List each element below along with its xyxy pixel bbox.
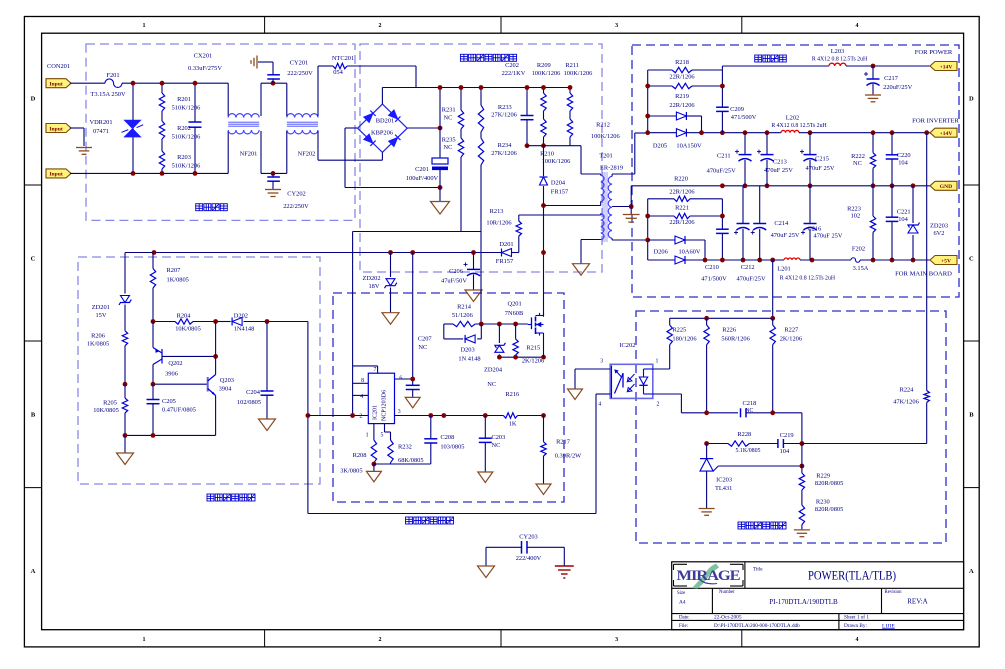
svg-text:CON201: CON201 [47,63,70,70]
svg-text:R201: R201 [177,96,191,103]
svg-text:470uF 25V: 470uF 25V [771,232,800,239]
svg-text:C211: C211 [717,152,731,159]
svg-text:ZD202: ZD202 [362,275,380,282]
svg-text:3: 3 [600,359,603,365]
svg-text:0.39R/2W: 0.39R/2W [555,452,582,459]
svg-text:18V: 18V [368,283,379,290]
svg-text:0.47UF/0805: 0.47UF/0805 [162,407,196,414]
svg-text:VDR201: VDR201 [89,119,112,126]
svg-text:6: 6 [399,376,402,382]
svg-text:R227: R227 [784,327,799,334]
svg-text:C206: C206 [449,268,463,275]
svg-text:L201: L201 [777,266,791,273]
svg-text:C: C [969,256,974,263]
svg-text:1: 1 [143,637,146,643]
svg-text:3.15A: 3.15A [853,265,869,272]
svg-text:L202: L202 [786,115,800,122]
svg-text:R222: R222 [851,153,865,160]
svg-text:27K/1206: 27K/1206 [491,150,517,157]
svg-text:2: 2 [359,413,362,419]
svg-text:1K: 1K [509,420,517,427]
svg-text:R230: R230 [816,499,830,506]
svg-text:100K/1206: 100K/1206 [564,70,593,77]
svg-text:2K/1206: 2K/1206 [522,358,544,365]
svg-text:5.1K/0805: 5.1K/0805 [735,448,760,454]
svg-text:NTC201: NTC201 [332,55,354,62]
svg-text:D203: D203 [460,347,474,354]
svg-text:FOR MAIN BOARD: FOR MAIN BOARD [895,271,952,278]
svg-text:ER-2819: ER-2819 [600,165,623,172]
svg-text:10K/0805: 10K/0805 [93,407,119,414]
svg-text:B: B [31,412,36,419]
svg-text:F201: F201 [106,72,119,79]
svg-text:C215: C215 [815,156,829,163]
svg-text:C203: C203 [491,434,505,441]
svg-text:100uF/400V: 100uF/400V [406,175,439,182]
svg-text:15V: 15V [95,312,106,319]
svg-text:100K/1206: 100K/1206 [542,158,571,165]
svg-text:C202: C202 [505,62,519,69]
svg-text:C208: C208 [440,434,454,441]
svg-text:222/400V: 222/400V [516,555,542,562]
svg-text:10A150V: 10A150V [676,143,702,150]
svg-text:1: 1 [366,433,369,439]
svg-text:NC: NC [487,381,496,388]
svg-text:7N60B: 7N60B [505,310,523,317]
svg-text:R203: R203 [177,154,191,161]
svg-text:B: B [969,412,974,419]
svg-text:R235: R235 [442,137,456,144]
svg-text:A4: A4 [679,600,686,606]
svg-text:Drawn By:: Drawn By: [844,623,867,629]
svg-text:R212: R212 [596,122,610,129]
svg-text:R221: R221 [675,205,689,212]
svg-text:Input: Input [49,172,63,178]
svg-text:+5V: +5V [941,258,951,264]
svg-text:L203: L203 [831,48,845,55]
svg-text:C216: C216 [807,225,821,232]
svg-text:470uF 25V: 470uF 25V [814,232,843,239]
svg-text:R206: R206 [91,333,105,340]
svg-text:Input: Input [49,126,63,132]
svg-text:Size: Size [677,591,685,596]
svg-text:Q203: Q203 [220,377,234,384]
svg-text:6V2: 6V2 [933,230,944,237]
svg-text:CX201: CX201 [194,53,212,60]
svg-text:3904: 3904 [219,386,233,393]
svg-text:103/0805: 103/0805 [440,443,464,450]
svg-text:1N 4148: 1N 4148 [458,356,480,363]
svg-text:7: 7 [373,367,376,373]
svg-text:Number: Number [719,590,735,595]
svg-text:2: 2 [379,23,382,29]
svg-text:R215: R215 [526,344,540,351]
svg-text:C210: C210 [705,264,719,271]
svg-text:1N4148: 1N4148 [234,326,255,333]
svg-text:C207: C207 [418,335,433,342]
svg-text:1K/0805: 1K/0805 [167,277,189,284]
svg-text:102: 102 [851,213,861,220]
svg-text:R223: R223 [847,205,861,212]
svg-text:R225: R225 [672,327,686,334]
svg-text:5: 5 [380,433,383,439]
svg-text:BD201: BD201 [376,118,394,125]
svg-text:R234: R234 [498,142,513,149]
svg-text:R208: R208 [353,452,367,459]
svg-text:KBP206: KBP206 [371,130,393,137]
svg-text:R224: R224 [900,387,915,394]
svg-text:510K/1206: 510K/1206 [172,134,201,141]
svg-text:471/500V: 471/500V [731,114,757,121]
svg-text:1: 1 [143,23,146,29]
svg-text:R219: R219 [675,93,689,100]
svg-text:560R/1206: 560R/1206 [721,335,749,342]
svg-text:Input: Input [49,82,63,88]
svg-text:C221: C221 [897,209,911,216]
svg-text:T3.15A 250V: T3.15A 250V [90,91,126,98]
svg-text:C218: C218 [742,400,756,407]
svg-text:470uF 25V: 470uF 25V [806,165,835,172]
svg-text:3K/0805: 3K/0805 [340,468,362,475]
svg-text:R233: R233 [498,104,512,111]
svg-text:R216: R216 [505,391,519,398]
svg-text:C219: C219 [780,432,794,439]
svg-text:D204: D204 [551,180,566,187]
svg-text:CY202: CY202 [287,191,305,198]
svg-text:C201: C201 [415,166,429,173]
svg-text:22R/1206: 22R/1206 [669,219,694,226]
svg-text:IC201: IC201 [373,405,379,420]
svg-text:Q201: Q201 [507,300,521,307]
svg-text:+14V: +14V [940,64,953,70]
svg-text:1: 1 [655,359,658,365]
svg-text:C214: C214 [774,220,789,227]
svg-text:2: 2 [657,401,660,407]
svg-text:A: A [31,568,36,575]
svg-text:NC: NC [853,160,862,167]
svg-text:R213: R213 [490,208,504,215]
svg-text:CY203: CY203 [519,534,537,541]
svg-text:220uF/25V: 220uF/25V [883,84,913,91]
svg-text:222/1KV: 222/1KV [502,70,526,77]
svg-text:R202: R202 [177,125,191,132]
svg-text:C220: C220 [897,152,911,159]
svg-text:D201: D201 [499,241,513,248]
svg-text:510K/1206: 510K/1206 [172,163,201,170]
svg-text:Title: Title [753,566,763,572]
svg-text:LIJIE: LIJIE [882,623,895,629]
svg-text:R210: R210 [540,150,554,157]
svg-text:D202: D202 [234,312,248,319]
svg-text:C212: C212 [741,264,755,271]
svg-text:104: 104 [898,216,908,223]
svg-text:68K/0805: 68K/0805 [398,457,424,464]
svg-text:POWER(TLA/TLB): POWER(TLA/TLB) [808,568,896,582]
svg-text:C217: C217 [884,75,899,82]
svg-text:510K/1206: 510K/1206 [172,105,201,112]
svg-text:104: 104 [780,448,790,455]
svg-text:R205: R205 [103,400,117,407]
svg-text:R231: R231 [442,107,456,114]
svg-text:180/1206: 180/1206 [672,335,696,342]
svg-text:File:: File: [679,624,688,629]
svg-text:CY201: CY201 [290,60,308,67]
svg-text:3906: 3906 [165,371,178,378]
svg-text:C204: C204 [246,389,261,396]
svg-text:ZD203: ZD203 [930,223,948,230]
svg-text:MIRAGE: MIRAGE [677,568,741,584]
svg-text:4: 4 [856,637,859,643]
svg-text:D205: D205 [653,143,667,150]
svg-text:IC203: IC203 [716,476,732,483]
svg-text:820R/0805: 820R/0805 [815,506,843,513]
svg-text:22-Oct-2005: 22-Oct-2005 [714,615,742,621]
svg-text:100K/1206: 100K/1206 [532,70,561,77]
svg-text:R214: R214 [457,303,472,310]
svg-text:FR157: FR157 [551,189,569,196]
svg-text:ZD201: ZD201 [92,304,110,311]
svg-text:D: D [969,96,974,103]
svg-text:2K/1206: 2K/1206 [780,335,802,342]
svg-text:R204: R204 [177,312,192,319]
svg-text:NC: NC [444,144,453,151]
svg-text:4: 4 [856,23,859,29]
svg-text:R218: R218 [675,59,689,66]
svg-text:R229: R229 [816,472,830,479]
svg-text:3: 3 [615,637,618,643]
svg-text:Revision: Revision [885,590,903,595]
svg-text:D206: D206 [654,248,668,255]
svg-text:C205: C205 [162,398,176,405]
svg-text:104: 104 [898,160,908,167]
svg-text:054: 054 [333,69,343,76]
svg-text:FR157: FR157 [496,258,514,265]
svg-text:07471: 07471 [93,128,109,135]
svg-text:R228: R228 [737,431,751,438]
svg-text:NCP1203D6: NCP1203D6 [382,390,388,421]
svg-text:3: 3 [615,23,618,29]
svg-text:4: 4 [360,394,363,400]
svg-text:PI-170DTLA/190DTLB: PI-170DTLA/190DTLB [769,598,838,606]
svg-text:51/1206: 51/1206 [452,312,473,319]
svg-text:10K/0805: 10K/0805 [175,326,201,333]
svg-text:27K/1206: 27K/1206 [491,112,517,119]
svg-text:+14V: +14V [940,131,953,137]
svg-text:47uF/50V: 47uF/50V [441,278,467,285]
svg-text:Date:: Date: [679,616,690,621]
svg-text:R 4X12 0.8 12.5Ts 2uH: R 4X12 0.8 12.5Ts 2uH [812,57,868,63]
svg-text:470uF/25V: 470uF/25V [736,276,766,283]
svg-text:ZD204: ZD204 [484,367,503,374]
svg-text:D:\PI-170DTLA\200-000-170DTLA.: D:\PI-170DTLA\200-000-170DTLA.ddb [714,623,800,629]
svg-text:D: D [31,96,36,103]
svg-text:22R/1206: 22R/1206 [669,102,694,109]
svg-text:R209: R209 [537,62,551,69]
svg-text:C: C [31,256,36,263]
svg-text:C209: C209 [730,106,744,113]
svg-text:Sheet 1 of 1: Sheet 1 of 1 [844,614,869,621]
svg-text:REV:A: REV:A [907,597,927,605]
svg-text:NF202: NF202 [298,151,316,158]
svg-text:R232: R232 [398,444,412,451]
svg-text:3: 3 [398,409,401,415]
svg-text:FOR POWER: FOR POWER [915,49,953,56]
svg-text:22R/1206: 22R/1206 [669,189,694,196]
svg-text:R226: R226 [722,327,736,334]
svg-text:R207: R207 [167,267,182,274]
svg-text:470uF/25V: 470uF/25V [707,167,737,174]
svg-text:Q202: Q202 [168,360,182,367]
svg-text:0.33uF/275V: 0.33uF/275V [188,65,222,72]
svg-text:C213: C213 [773,159,787,166]
svg-text:471/500V: 471/500V [701,276,727,283]
svg-text:820R/0805: 820R/0805 [815,480,843,487]
svg-text:2: 2 [379,637,382,643]
svg-text:R217: R217 [556,438,571,445]
svg-text:222/250V: 222/250V [287,70,313,77]
svg-text:10R/1206: 10R/1206 [486,220,511,227]
svg-text:NC: NC [492,442,501,449]
svg-text:470uF 25V: 470uF 25V [764,167,793,174]
svg-text:NC: NC [418,344,427,351]
svg-text:102/0805: 102/0805 [237,399,261,406]
svg-text:1K/0805: 1K/0805 [87,341,109,348]
svg-text:22R/1206: 22R/1206 [669,73,694,80]
svg-text:100K/1206: 100K/1206 [591,133,620,140]
svg-text:NC: NC [745,408,753,414]
svg-text:FOR INVERTER: FOR INVERTER [912,118,959,125]
svg-text:R220: R220 [674,176,688,183]
svg-text:GND: GND [940,184,952,190]
svg-text:F202: F202 [852,246,865,253]
svg-text:R 4X12 0.8 12.5Ts 2uH: R 4X12 0.8 12.5Ts 2uH [780,276,836,282]
svg-text:T201: T201 [599,153,613,160]
svg-text:R211: R211 [565,62,579,69]
svg-text:NC: NC [444,115,453,122]
svg-text:TL431: TL431 [715,485,732,492]
svg-text:4: 4 [598,401,601,407]
svg-text:R 4X12 0.8 12.5Ts 2uH: R 4X12 0.8 12.5Ts 2uH [771,123,827,129]
svg-text:NF201: NF201 [240,151,258,158]
svg-text:222/250V: 222/250V [283,203,309,210]
svg-text:IC202: IC202 [619,342,635,349]
svg-text:10A60V: 10A60V [678,248,700,255]
svg-text:A: A [969,568,974,575]
svg-text:47K/1206: 47K/1206 [893,398,919,405]
svg-text:8: 8 [361,378,364,384]
